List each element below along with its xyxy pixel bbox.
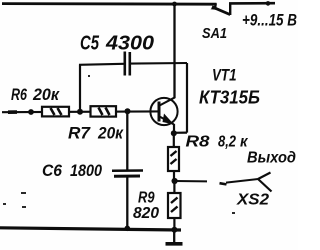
wire C5 left horizontal	[79, 64, 124, 65]
svg-text:КТ315Б: КТ315Б	[199, 88, 260, 108]
capacitor C5	[125, 52, 130, 76]
resistor R9	[168, 193, 181, 218]
wire main base line	[2, 110, 159, 113]
node output dot	[172, 178, 178, 184]
node emitter junction dot	[171, 130, 177, 136]
wire R8 top lead	[173, 133, 175, 147]
wire C6 drop from node B	[126, 111, 128, 169]
node top rail end blob	[266, 1, 271, 6]
node B dot	[125, 108, 131, 114]
svg-text:R8: R8	[186, 134, 210, 151]
svg-text:SA1: SA1	[202, 25, 227, 42]
wire output segment 1	[175, 180, 207, 182]
svg-text:VT1: VT1	[212, 66, 237, 85]
wire output dash	[220, 183, 227, 184]
svg-text:1800: 1800	[70, 161, 102, 180]
wire C5 right vertical down	[186, 63, 188, 133]
svg-text:8,2: 8,2	[218, 134, 236, 151]
svg-text:+9...15 В: +9...15 В	[242, 11, 297, 30]
wire input thick dash	[8, 110, 17, 114]
wire R9 top lead	[173, 181, 175, 193]
node collector T junction	[172, 2, 177, 7]
wire C5 right horizontal	[131, 62, 187, 65]
svg-text:С5: С5	[80, 33, 100, 55]
wire bottom rail	[0, 228, 181, 230]
wire jog to emitter node	[174, 132, 188, 134]
transistor VT1	[150, 97, 177, 133]
svg-text:С6: С6	[42, 161, 62, 180]
wire output segment 2	[226, 179, 258, 183]
wire C5 drop from node A	[79, 65, 81, 112]
svg-text:4300: 4300	[105, 33, 154, 55]
svg-text:20к: 20к	[97, 125, 124, 143]
wire R9 bottom lead	[173, 218, 175, 230]
svg-text:R7: R7	[68, 125, 91, 143]
wire top rail right	[229, 2, 275, 5]
node input dot	[28, 109, 34, 115]
svg-text:20к: 20к	[32, 86, 61, 104]
wire top rail left	[2, 2, 217, 5]
resistor R6	[42, 107, 69, 117]
wire collector vertical	[173, 4, 175, 98]
node C6 rail junction	[125, 226, 131, 232]
wire R8 bottom lead	[173, 171, 175, 181]
connector XS2	[258, 173, 272, 192]
wire C6 bottom	[126, 178, 128, 230]
svg-text:XS2: XS2	[236, 192, 269, 209]
resistor R8	[168, 147, 179, 171]
switch SA1	[211, 3, 231, 15]
svg-text:820: 820	[133, 205, 159, 222]
ground	[166, 230, 183, 244]
svg-text:R6: R6	[11, 86, 28, 104]
svg-text:к: к	[240, 134, 248, 151]
capacitor C6	[112, 171, 143, 177]
svg-text:Выход: Выход	[247, 150, 296, 167]
node R9 rail junction	[171, 227, 177, 233]
noise specks	[3, 75, 235, 214]
svg-text:R9: R9	[138, 190, 155, 207]
resistor R7	[91, 106, 117, 116]
node A dot	[77, 109, 83, 115]
